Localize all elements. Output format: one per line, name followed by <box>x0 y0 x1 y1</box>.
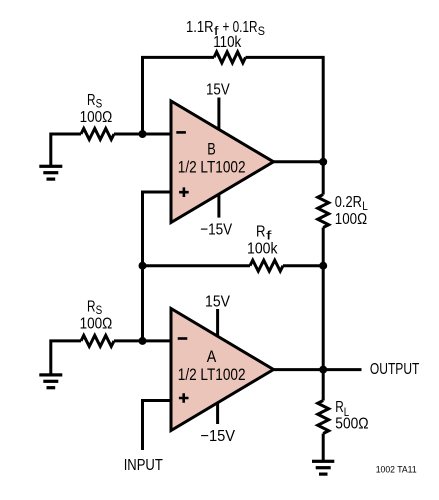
wire A output to OUTPUT <box>274 368 362 371</box>
junction node middle left <box>139 262 147 270</box>
svg-text:1002 TA11: 1002 TA11 <box>376 465 417 475</box>
wire B output <box>274 160 324 163</box>
junction node A inverting input <box>139 337 147 345</box>
svg-text:15V: 15V <box>206 82 230 99</box>
A inverting input minus symbol <box>178 337 188 340</box>
resistor RS (A) zigzag <box>81 335 114 346</box>
svg-text:OUTPUT: OUTPUT <box>370 361 420 378</box>
wire RS-B left stub and ground drop <box>51 134 81 166</box>
wire RS-A to inverting input node <box>114 339 171 342</box>
resistor R110k (1.1Rf+0.1RS) zigzag <box>214 52 246 63</box>
wire RS-B to inverting input node <box>114 133 171 136</box>
ground symbol G2 (RS-A) <box>39 373 62 389</box>
resistor Rf zigzag <box>250 260 283 271</box>
wire middle left (node to Rf) <box>143 264 251 267</box>
wire RS-A left stub and ground drop <box>51 341 81 375</box>
ground symbol G1 (RS-B) <box>39 165 62 181</box>
supply stub A +15V <box>216 309 219 337</box>
supply stub B -15V <box>217 193 220 217</box>
A noninverting input plus symbol <box>179 393 189 403</box>
label 1.1Rf + 0.1RS <box>186 19 265 38</box>
label Rf <box>256 224 272 243</box>
wire B noninverting input to middle node <box>143 192 172 266</box>
wire top feedback left corner <box>143 57 215 135</box>
junction node B output <box>319 158 327 166</box>
junction node middle right <box>319 262 327 270</box>
wire A noninverting input to INPUT drop <box>143 401 172 451</box>
junction node B inverting input <box>139 130 147 138</box>
resistor 0.2RL zigzag <box>318 195 329 228</box>
svg-text:−15V: −15V <box>200 221 232 238</box>
svg-text:100Ω: 100Ω <box>335 211 367 228</box>
label RL <box>335 399 349 419</box>
svg-text:0.2R: 0.2R <box>335 194 362 211</box>
svg-text:100Ω: 100Ω <box>80 316 113 333</box>
svg-text:110k: 110k <box>213 34 242 51</box>
ground symbol G3 (RL) <box>312 460 334 476</box>
wire middle right (Rf to rail) <box>283 264 323 267</box>
op-amp U1B triangle <box>171 101 274 223</box>
resistor RL zigzag <box>318 401 329 434</box>
label RS (A) <box>87 298 102 316</box>
supply stub B +15V <box>217 98 220 131</box>
junction node A output <box>319 366 327 374</box>
svg-text:100Ω: 100Ω <box>80 109 113 126</box>
svg-text:−15V: −15V <box>200 428 235 445</box>
label RS (B) <box>87 92 102 110</box>
B inverting input minus symbol <box>176 131 186 134</box>
wire left rail between nodes <box>141 266 144 341</box>
wire top feedback right <box>246 57 324 194</box>
svg-text:R: R <box>87 298 96 315</box>
svg-text:15V: 15V <box>205 293 230 310</box>
wire RL to ground <box>322 434 325 462</box>
svg-text:S: S <box>258 24 265 38</box>
svg-text:1.1R: 1.1R <box>186 19 214 36</box>
resistor RS (B) zigzag <box>81 129 114 140</box>
svg-text:1/2 LT1002: 1/2 LT1002 <box>178 366 246 384</box>
svg-text:R: R <box>335 399 344 416</box>
svg-text:B: B <box>207 141 216 159</box>
svg-text:R: R <box>256 224 266 241</box>
B noninverting input plus symbol <box>179 187 189 197</box>
svg-text:R: R <box>87 92 96 109</box>
svg-text:100k: 100k <box>247 241 278 258</box>
op-amp U1A triangle <box>171 309 274 431</box>
wire right rail middle <box>322 228 325 401</box>
svg-text:500Ω: 500Ω <box>335 415 368 432</box>
label 0.2RL <box>335 194 368 213</box>
svg-text:A: A <box>207 348 217 366</box>
supply stub A -15V <box>216 403 219 425</box>
svg-text:1/2 LT1002: 1/2 LT1002 <box>178 158 246 176</box>
svg-text:INPUT: INPUT <box>124 457 163 474</box>
